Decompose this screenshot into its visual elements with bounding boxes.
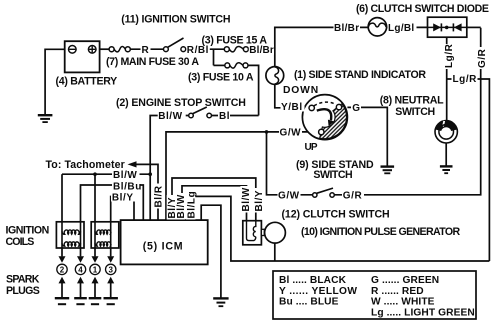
wire side stand indicator to switch, net Y/Bl — [275, 84, 309, 107]
svg-text:R: R — [142, 45, 150, 56]
label net Bl/W engine stop — [158, 110, 186, 122]
svg-text:G ...... GREEN: G ...... GREEN — [371, 275, 439, 286]
svg-text:Bl/R: Bl/R — [153, 185, 164, 207]
ground spark plug 2 — [55, 298, 69, 304]
svg-text:1: 1 — [93, 265, 98, 274]
spark plug arrows down — [59, 256, 115, 263]
svg-text:Lg/Bl: Lg/Bl — [388, 23, 415, 34]
wire spark plug lead 2 — [61, 248, 63, 256]
pulse generator rotor circle — [265, 222, 286, 243]
svg-text:(6) CLUTCH SWITCH DIODE: (6) CLUTCH SWITCH DIODE — [356, 3, 489, 15]
svg-text:(11) IGNITION SWITCH: (11) IGNITION SWITCH — [121, 14, 230, 26]
svg-text:Lg/R: Lg/R — [444, 43, 455, 68]
label net Bl/Bu coils — [112, 181, 142, 192]
wire spark plug 4 gap to ground — [80, 283, 82, 298]
wire lamp to diode box, net Lg/Bl — [387, 26, 428, 28]
svg-text:Y ...... YELLOW: Y ...... YELLOW — [279, 286, 357, 297]
fuse F10 10A — [225, 63, 248, 68]
svg-text:SPARK: SPARK — [6, 274, 40, 286]
wire spark plug 2 gap to ground — [61, 283, 63, 298]
node diode center junction — [445, 26, 449, 30]
wire fuse 10A to engine stop switch, net Bl — [248, 65, 259, 115]
wire coil1 to ICM, net Bl/Bu — [81, 185, 144, 222]
wire coil2 to ICM, net Bl/Y — [111, 197, 134, 222]
svg-text:Bl/Br: Bl/Br — [249, 45, 274, 56]
svg-text:3: 3 — [108, 265, 113, 274]
junction dot Bl/W coil2 tap — [93, 172, 97, 176]
terminal number 2 — [57, 264, 67, 274]
svg-text:Bl ..... BLACK: Bl ..... BLACK — [279, 275, 347, 286]
rotation arrow — [317, 109, 331, 120]
svg-text:Bl/W: Bl/W — [176, 194, 187, 218]
wire spark plug 3 gap to ground — [110, 283, 112, 298]
wire diode box right lead — [467, 26, 481, 28]
wire clutch switch to diode, net G/R — [334, 28, 481, 195]
svg-text:Bl/W: Bl/W — [158, 111, 182, 122]
label net Bl/W pulse generator — [240, 186, 252, 213]
svg-text:(3) FUSE 15 A: (3) FUSE 15 A — [202, 34, 268, 46]
svg-text:Lg ..... LIGHT GREEN: Lg ..... LIGHT GREEN — [371, 307, 475, 318]
terminal Y/Bl — [309, 105, 314, 110]
wire Bl/Br vertical riser — [275, 27, 369, 66]
wire bottom rail to ICM, net Bl/Lg — [193, 196, 489, 261]
svg-text:Bl/W: Bl/W — [241, 187, 252, 211]
ground battery — [38, 115, 53, 122]
label net Bl/Br top — [334, 22, 361, 34]
svg-text:(1) SIDE STAND INDICATOR: (1) SIDE STAND INDICATOR — [294, 69, 426, 81]
svg-text:Y/Bl: Y/Bl — [281, 102, 303, 113]
wire pulse generator rotor stub — [274, 243, 276, 261]
label net R — [141, 44, 151, 56]
wire spark plug 1 gap to ground — [94, 283, 96, 298]
side stand switch rotary S9 — [302, 95, 347, 140]
svg-text:4: 4 — [78, 265, 83, 274]
svg-text:G/R: G/R — [343, 191, 363, 202]
label net G/W clutch — [278, 190, 301, 202]
svg-text:(8) NEUTRAL: (8) NEUTRAL — [380, 94, 444, 106]
wire coil1 left terminal drop — [61, 174, 63, 222]
svg-text:Bl/Y: Bl/Y — [254, 190, 265, 212]
wire fuse 15A to vertical, net Bl/Br — [248, 48, 274, 50]
ignition switch S11 — [164, 38, 186, 52]
wire main fuse to ignition switch — [130, 48, 164, 50]
lamp clutch diode bulb L2 — [368, 18, 386, 36]
svg-text:G/W: G/W — [278, 191, 300, 202]
wire ICM case ground — [201, 205, 221, 297]
fuse F30 main fuse 30A — [109, 47, 130, 52]
svg-text:Bl/Br: Bl/Br — [334, 23, 359, 34]
terminal number 4 — [75, 264, 85, 274]
label net G/W side stand — [279, 127, 302, 139]
wire neutral switch to ground — [445, 143, 447, 166]
svg-text:(10) IGNITION PULSE GENERATOR: (10) IGNITION PULSE GENERATOR — [301, 226, 460, 238]
label net Bl engine stop — [218, 110, 230, 122]
lamp side stand indicator L1 — [266, 67, 284, 85]
wire coil2 left terminal drop — [94, 174, 96, 222]
wire battery minus to ground — [45, 49, 65, 114]
wire side stand switch to ground, net G — [347, 107, 387, 165]
wire fuse 10A branch — [214, 64, 225, 66]
fuse F15 15A — [224, 47, 248, 52]
label net G/R vertical — [476, 47, 488, 69]
label net Bl/Lg ICM pin — [186, 191, 198, 220]
terminal number 1 — [90, 264, 100, 274]
svg-text:(7) MAIN FUSE 30 A: (7) MAIN FUSE 30 A — [106, 56, 199, 68]
tachometer arrow — [128, 161, 137, 167]
wire side stand switch to ICM, net G/W — [166, 132, 319, 220]
wire engine stop switch right lead — [211, 115, 258, 117]
svg-text:(3) FUSE 10 A: (3) FUSE 10 A — [188, 72, 254, 84]
label net Bl/Y coils — [111, 192, 135, 203]
ground ICM — [213, 298, 228, 306]
ground spark plug 3 — [104, 298, 118, 304]
label net Y/Bl — [281, 102, 305, 114]
label net Bl/W coils — [112, 170, 140, 181]
svg-text:Bu .... BLUE: Bu .... BLUE — [279, 297, 339, 308]
svg-text:G/W: G/W — [280, 128, 302, 139]
label net R/Bl — [186, 45, 210, 57]
svg-text:Bl/Y: Bl/Y — [112, 192, 134, 203]
wire diode center to neutral switch, net Lg/R — [446, 37, 448, 120]
pulse generator box — [243, 221, 264, 245]
label net Lg/R vertical — [444, 43, 456, 69]
label net Bl/Br fuse — [249, 45, 274, 57]
svg-text:R/Bl: R/Bl — [187, 45, 209, 56]
ground side stand G — [381, 167, 395, 174]
svg-text:2: 2 — [60, 265, 65, 274]
svg-text:COILS: COILS — [6, 236, 35, 248]
label net Bl/W ICM pin — [175, 193, 187, 220]
wire spark plug lead 1 — [94, 248, 96, 256]
svg-text:(5) ICM: (5) ICM — [143, 240, 184, 252]
label net Bl/Y pulse generator — [253, 188, 265, 213]
svg-text:Bl: Bl — [219, 111, 230, 122]
terminal number 3 — [106, 264, 116, 274]
ignition coil T2 — [91, 222, 119, 248]
svg-text:(2) ENGINE STOP SWITCH: (2) ENGINE STOP SWITCH — [116, 97, 246, 109]
battery — [65, 41, 100, 72]
wire Lg/R branch row — [447, 79, 490, 261]
svg-text:Bl/Lg: Bl/Lg — [186, 191, 197, 219]
label net Bl/R vertical — [153, 184, 165, 209]
svg-text:R ...... RED: R ...... RED — [371, 286, 424, 297]
ground spark plug 4 — [74, 298, 87, 304]
wire battery plus to main fuse — [100, 48, 110, 50]
junction dot G/W clutch branch — [265, 130, 269, 134]
neutral switch S8 — [435, 121, 457, 143]
svg-text:UP: UP — [305, 142, 318, 153]
wire coil supply, net Bl/W — [62, 173, 150, 175]
svg-text:G/R: G/R — [477, 48, 488, 68]
label net Lg/R row — [452, 73, 478, 85]
clutch switch S12 — [313, 188, 335, 197]
ignition coil T1 — [56, 222, 84, 248]
legend box — [273, 271, 476, 319]
terminal G/W — [319, 129, 324, 134]
wire ICM to pulse generator, net Bl/Y — [172, 178, 256, 221]
contact band hatched — [320, 104, 347, 139]
svg-text:(4) BATTERY: (4) BATTERY — [56, 75, 118, 87]
diode D1 — [433, 23, 441, 31]
svg-text:DOWN: DOWN — [283, 85, 319, 96]
engine stop switch S2 — [189, 107, 212, 118]
wire spark plug lead 4 — [80, 248, 82, 256]
node junction R/Bl split — [213, 49, 215, 65]
svg-text:(12) CLUTCH SWITCH: (12) CLUTCH SWITCH — [282, 209, 390, 221]
svg-text:IGNITION: IGNITION — [6, 225, 49, 237]
junction dot Bl/W at ICM riser — [148, 172, 152, 176]
svg-text:Bl/W: Bl/W — [113, 170, 137, 181]
svg-text:W ..... WHITE: W ..... WHITE — [371, 297, 435, 308]
ground spark plug 1 — [89, 298, 102, 304]
terminal G — [336, 104, 341, 109]
wire spark plug lead 3 — [110, 248, 112, 256]
wire G/W branch to clutch switch — [267, 132, 313, 195]
svg-text:G: G — [352, 103, 360, 114]
label net Lg/Bl — [388, 22, 417, 34]
svg-text:SWITCH: SWITCH — [395, 106, 435, 118]
dashed arc DOWN position — [314, 102, 336, 106]
label net G — [351, 103, 361, 114]
diode D2 — [452, 23, 454, 31]
svg-text:SWITCH: SWITCH — [313, 169, 352, 181]
svg-text:Bl/Bu: Bl/Bu — [113, 181, 142, 192]
spark plug arrows up — [59, 277, 115, 284]
label net Bl/Y ICM pin — [167, 195, 179, 220]
wire engine stop switch left lead, net Bl/W — [150, 116, 189, 221]
wire ignition switch to fuse 15A, net R/Bl — [186, 48, 225, 50]
svg-text:PLUGS: PLUGS — [6, 285, 40, 297]
clutch switch diode box U6 — [428, 17, 467, 37]
ground neutral switch — [440, 166, 453, 173]
ICM box U5 — [121, 220, 208, 264]
wire tachometer branch, net Bl/R — [135, 164, 158, 220]
svg-text:To: Tachometer: To: Tachometer — [46, 159, 125, 171]
label net G/R clutch — [342, 190, 364, 202]
svg-text:Lg/R: Lg/R — [453, 74, 478, 85]
wire ICM to pulse generator, net Bl/W — [182, 186, 247, 221]
